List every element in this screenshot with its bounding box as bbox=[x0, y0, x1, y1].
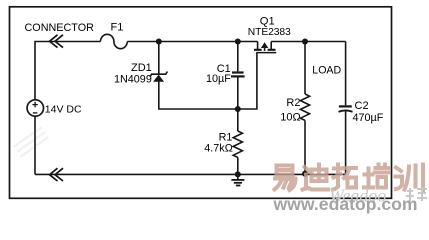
wire: C2 branch upper bbox=[345, 42, 347, 106]
wire: R2 bottom to bottom rail bbox=[304, 120, 306, 174]
char tuo bbox=[333, 165, 356, 190]
char yi bbox=[275, 166, 296, 191]
svg-text:1N4099: 1N4099 bbox=[114, 74, 152, 86]
wire: R1 branch from gate node down to zigzag bbox=[237, 109, 239, 131]
label NTE2383 bbox=[248, 27, 291, 38]
label F1 bbox=[111, 21, 124, 33]
source V1 14V DC bbox=[27, 100, 43, 116]
wire: bottom rail bbox=[35, 173, 346, 175]
label LOAD bbox=[312, 65, 341, 77]
char pei bbox=[364, 165, 389, 188]
node: junction dot bottom rail / R2 bbox=[302, 171, 308, 177]
svg-text:C2: C2 bbox=[355, 100, 369, 112]
label R1 bbox=[219, 131, 233, 143]
wire: top rail from Q1 right stub to C2 corner bbox=[271, 41, 345, 43]
watermark: big CJK characters yi di tuo pei xun bbox=[275, 165, 424, 191]
svg-text:R2: R2 bbox=[286, 97, 300, 109]
wire: C2 bottom to bottom rail bbox=[345, 111, 347, 174]
zener diode ZD1 bbox=[150, 72, 168, 82]
svg-text:4.7kΩ: 4.7kΩ bbox=[204, 143, 232, 155]
label 10Ohm bbox=[280, 111, 300, 123]
svg-text:470µF: 470µF bbox=[353, 112, 384, 124]
svg-text:www.edatop.com: www.edatop.com bbox=[273, 194, 418, 214]
label 1N4099 bbox=[114, 74, 152, 86]
svg-text:CONNECTOR: CONNECTOR bbox=[25, 22, 95, 34]
node: junction dot top rail / R2 branch bbox=[302, 39, 308, 45]
watermark: www.edatop.com bbox=[273, 194, 418, 214]
svg-text:NTE2383: NTE2383 bbox=[248, 27, 291, 38]
watermark: script overlay weadoo bbox=[329, 186, 386, 206]
resistor R2 bbox=[300, 94, 309, 120]
svg-text:14V DC: 14V DC bbox=[45, 103, 82, 115]
svg-text:ZD1: ZD1 bbox=[131, 62, 152, 74]
wire: top-left segment from left rail corner to fuse bbox=[35, 42, 101, 101]
transistor Q1 MOSFET bbox=[254, 42, 276, 53]
connector chevrons on top wire bbox=[50, 35, 64, 48]
watermark: faint diagonal stamp lower-left bbox=[14, 127, 49, 156]
label C1 bbox=[217, 63, 231, 75]
watermark: light CJK wei ku bbox=[406, 188, 427, 201]
wire: ZD1 branch upper bbox=[158, 42, 160, 75]
node: junction dot bottom rail / R1 bbox=[235, 171, 241, 177]
connector chevrons on bottom wire bbox=[50, 168, 64, 181]
svg-text:Q1: Q1 bbox=[260, 15, 275, 27]
label 470uF bbox=[353, 112, 384, 124]
wire: C1 lower to gate node bbox=[237, 78, 239, 110]
node: junction dot top rail / C1 branch bbox=[235, 39, 241, 45]
capacitor C1 bbox=[231, 73, 245, 77]
wire: ZD1 anode down, across to gate node, up to gate bbox=[159, 53, 257, 109]
label 4.7kOhm bbox=[204, 143, 232, 155]
label R2 bbox=[286, 97, 300, 109]
label 14V DC bbox=[45, 103, 82, 115]
node: junction dot top rail / ZD1 branch bbox=[156, 39, 162, 45]
capacitor C2 bbox=[339, 106, 353, 111]
node: junction dot gate node / C1-R1 branch bbox=[235, 106, 241, 112]
label CONNECTOR bbox=[25, 22, 95, 34]
wire: left rail below source bbox=[34, 116, 36, 174]
svg-text:F1: F1 bbox=[111, 21, 124, 33]
char xun bbox=[396, 165, 424, 191]
wire: R2 branch upper bbox=[304, 42, 306, 95]
fuse F1 bbox=[101, 34, 128, 48]
wire: top rail from fuse to Q1 left stub bbox=[127, 41, 257, 43]
wire: R1 bottom to bottom rail bbox=[237, 157, 239, 174]
svg-text:10µF: 10µF bbox=[206, 73, 231, 85]
resistor R1 bbox=[233, 131, 242, 157]
wire: C1 branch upper bbox=[237, 42, 239, 72]
label C2 bbox=[355, 100, 369, 112]
label ZD1 bbox=[131, 62, 152, 74]
char di bbox=[303, 165, 329, 190]
svg-text:10Ω: 10Ω bbox=[280, 111, 300, 123]
ground bbox=[231, 174, 244, 185]
label 10uF bbox=[206, 73, 231, 85]
svg-text:LOAD: LOAD bbox=[312, 65, 341, 77]
label Q1 bbox=[260, 15, 275, 27]
